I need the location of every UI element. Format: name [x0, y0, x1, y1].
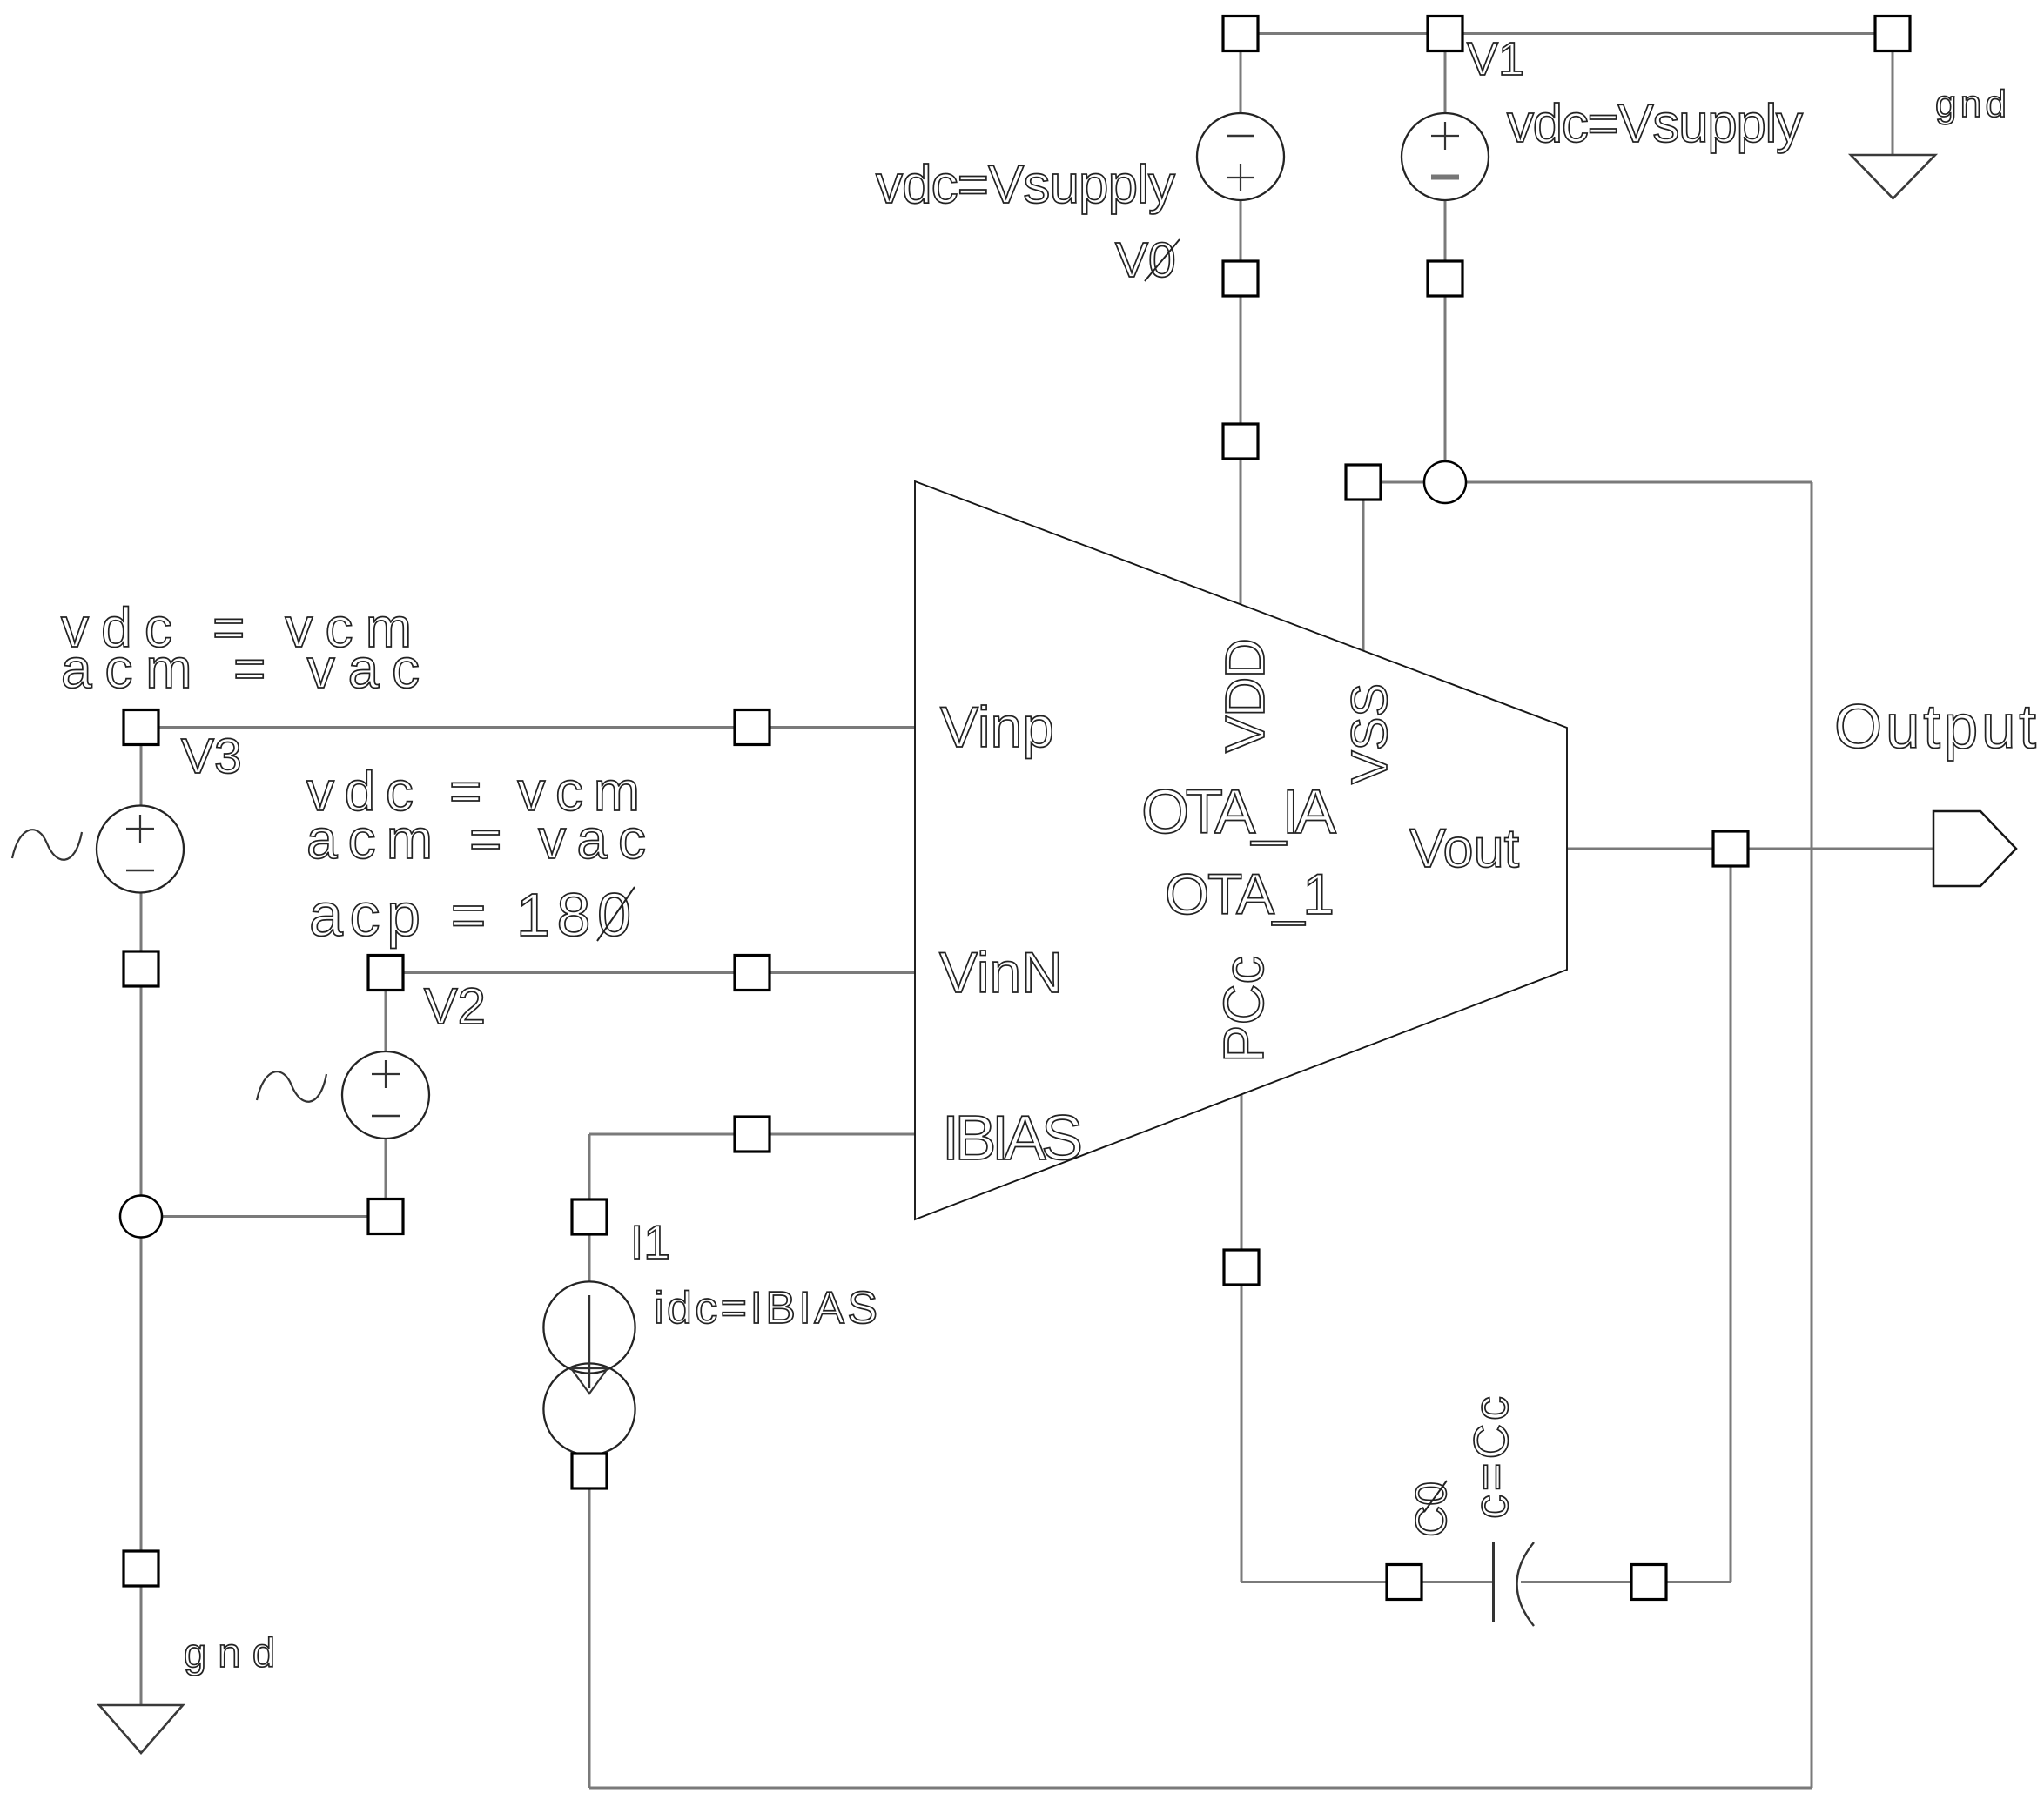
svg-text:V2: V2	[424, 978, 486, 1035]
terminal VDD mid	[1223, 424, 1258, 459]
terminal Vinp mid	[735, 710, 770, 745]
terminal IBIAS mid	[735, 1117, 770, 1152]
terminal top rail left	[1223, 17, 1258, 51]
svg-text:I1: I1	[630, 1215, 670, 1269]
wire V2 bottom stub	[385, 1139, 387, 1217]
wire V1 bottom to junction	[1444, 200, 1447, 462]
terminal cap left	[1387, 1565, 1422, 1600]
svg-text:gnd: gnd	[1935, 83, 2007, 125]
terminal I1 top	[572, 1199, 607, 1234]
wire bottom rail	[589, 1787, 1812, 1790]
current source I1	[543, 1281, 635, 1454]
svg-text:OTA_1: OTA_1	[1165, 862, 1335, 926]
ground symbol top right	[1851, 155, 1935, 198]
svg-text:VSS: VSS	[1341, 683, 1398, 784]
terminal V2	[368, 956, 403, 991]
wire feedback right vertical	[1811, 482, 1813, 1788]
wire junction to VSS terminal	[1363, 481, 1425, 484]
svg-text:acm = vac: acm = vac	[306, 808, 646, 870]
wire V2 top stub	[385, 991, 387, 1051]
terminal V0 bottom	[1223, 261, 1258, 296]
sine marker of V2	[257, 1071, 326, 1102]
terminal Vout	[1713, 831, 1748, 866]
svg-text:V1: V1	[1467, 33, 1524, 85]
wire VSS terminal drop to VSS pin	[1362, 499, 1365, 651]
terminal top rail right	[1875, 17, 1910, 51]
op-amp OTA_1 trapezoid symbol	[915, 481, 1567, 1219]
svg-text:c=Cc: c=Cc	[1463, 1396, 1518, 1519]
terminal PCc	[1224, 1250, 1259, 1285]
voltage source V3	[12, 806, 184, 893]
svg-text:acm = vac: acm = vac	[61, 637, 420, 700]
svg-text:Vinp: Vinp	[940, 695, 1054, 759]
voltage source V2	[257, 1051, 429, 1139]
terminal VSS	[1346, 465, 1381, 500]
wire Vout net	[1567, 848, 1933, 850]
wire Vout to cap vertical	[1730, 866, 1732, 1582]
svg-text:gnd: gnd	[184, 1629, 275, 1676]
svg-text:vdc=Vsupply: vdc=Vsupply	[1507, 94, 1803, 154]
terminal V1 bottom	[1428, 261, 1462, 296]
terminal cap right	[1631, 1565, 1666, 1600]
terminal V2 bottom	[368, 1199, 403, 1234]
terminal V3	[124, 710, 158, 745]
wire cap left	[1241, 1581, 1493, 1583]
svg-text:idc=IBIAS: idc=IBIAS	[654, 1283, 877, 1333]
svg-text:vdc=Vsupply: vdc=Vsupply	[876, 155, 1175, 215]
svg-text:VDD: VDD	[1214, 638, 1276, 753]
svg-text:OTA_IA: OTA_IA	[1141, 778, 1337, 847]
wire junction to V2 bottom terminal	[162, 1215, 386, 1218]
terminal gnd branch	[124, 1551, 158, 1586]
terminal I1 bottom	[572, 1454, 607, 1488]
wire V1 top stub	[1444, 34, 1447, 114]
wire V0 top stub	[1240, 34, 1242, 114]
terminal VinN mid	[735, 956, 770, 991]
node junction VSS/V1	[1424, 461, 1466, 503]
ground symbol bottom left	[99, 1705, 183, 1753]
wire gnd top right drop	[1892, 50, 1894, 155]
wire IBIAS horizontal	[589, 1133, 915, 1136]
svg-text:PCc: PCc	[1212, 956, 1275, 1063]
wire V3 top stub	[140, 745, 143, 806]
svg-text:C0: C0	[1407, 1481, 1456, 1537]
wire cap right	[1521, 1581, 1731, 1583]
wire VinN net	[386, 971, 915, 974]
wire top supply rail	[1241, 32, 1893, 35]
svg-text:acp = 180: acp = 180	[309, 881, 631, 949]
terminal top rail V1	[1428, 17, 1462, 51]
wire V0 bottom to VDD pin	[1240, 200, 1242, 605]
voltage source V0	[1197, 113, 1284, 200]
svg-text:IBIAS: IBIAS	[942, 1104, 1083, 1173]
capacitor C0	[1494, 1542, 1535, 1626]
terminal V3 branch mid	[124, 951, 158, 986]
wire V3 bottom to junction	[140, 892, 143, 1196]
sine marker of V3	[12, 830, 82, 860]
svg-text:VinN: VinN	[939, 940, 1063, 1004]
output pin Output	[1933, 811, 2016, 886]
node junction gnd branch	[120, 1196, 162, 1238]
svg-text:Vout: Vout	[1409, 818, 1520, 879]
svg-text:Output: Output	[1834, 693, 2036, 762]
wire PCc vertical	[1241, 1094, 1243, 1582]
wire I1 vertical chain	[588, 1134, 591, 1788]
svg-text:V3: V3	[181, 729, 242, 784]
wire feedback top horizontal	[1465, 481, 1812, 484]
wire Vinp net	[141, 726, 915, 729]
voltage source V1	[1402, 113, 1489, 200]
wire junction to gnd bottom	[140, 1237, 143, 1705]
